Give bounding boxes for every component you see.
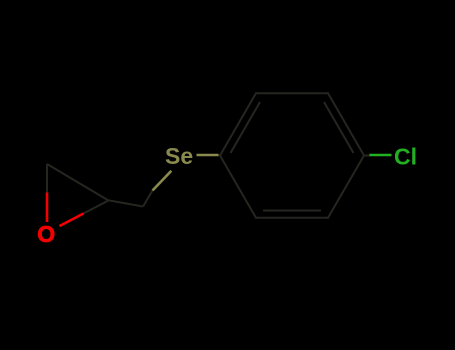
oxirane O-C1 bond carbon half: [46, 164, 48, 193]
double bond inner line upper-left edge: [231, 102, 261, 153]
oxirane O-C1 bond red half: [46, 193, 49, 223]
double bond inner line upper-right edge: [324, 102, 354, 153]
bond Se-ring carbon stub: [219, 155, 222, 157]
oxirane O-C2 bond carbon half: [84, 201, 109, 214]
svg-text:Cl: Cl: [394, 144, 417, 170]
double bond inner line bottom edge: [263, 210, 321, 212]
svg-text:O: O: [37, 221, 55, 247]
svg-text:Se: Se: [165, 143, 193, 169]
bond Se-ring olive: [197, 154, 219, 157]
benzene ring hexagon: [220, 93, 364, 218]
oxirane C1-C2 bond: [47, 164, 109, 201]
bond CH2-Se olive half: [153, 171, 172, 191]
bond CH2-Se carbon stub: [143, 191, 153, 207]
bond ring-Cl carbon stub: [364, 155, 370, 157]
bond ring-Cl green half: [370, 154, 392, 157]
oxirane O-C2 bond red half: [60, 213, 84, 226]
bond C2-CH2: [109, 200, 144, 206]
